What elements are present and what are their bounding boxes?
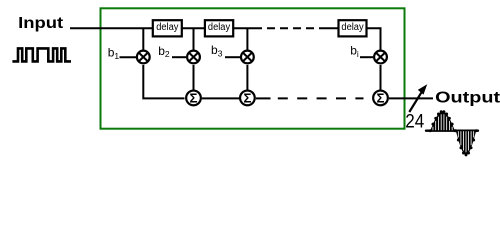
summer S3 — [373, 91, 388, 106]
delay D1 — [153, 20, 182, 36]
wire M2 down into summer S1 — [193, 65, 195, 90]
multiplier M2 — [187, 51, 200, 64]
summer S1 — [186, 91, 201, 106]
svg-text:24: 24 — [405, 111, 424, 132]
node Input label — [18, 13, 63, 32]
wire S3 to output — [389, 97, 433, 99]
filter block boundary box — [101, 8, 405, 128]
delay D2 — [205, 20, 233, 36]
summer S2 — [240, 91, 255, 106]
wire input line to delay D1 — [70, 27, 153, 29]
svg-text:Σ: Σ — [243, 91, 251, 106]
coefficient label bi — [350, 44, 359, 59]
multiplier M3 — [241, 51, 254, 64]
wire delay D1 to delay D2 — [182, 27, 205, 29]
coefficient label b1 — [108, 46, 120, 61]
node Output label — [435, 88, 500, 106]
svg-text:Input: Input — [18, 13, 63, 32]
coefficient label b2 — [158, 44, 170, 59]
svg-text:Σ: Σ — [190, 91, 198, 106]
wire b3 stub — [225, 56, 240, 58]
svg-text:delay: delay — [341, 21, 363, 33]
multiplier M4 — [374, 51, 387, 64]
wire S2 solid stub right — [256, 97, 271, 99]
wire bi stub — [360, 56, 373, 58]
wire tap1 vertical into multiplier M1 — [142, 28, 144, 50]
delay D3 — [339, 20, 367, 36]
bus width arrow slash — [409, 84, 427, 112]
bus width label 24 — [405, 111, 424, 132]
wire dashed S2 to S3 — [278, 97, 364, 99]
wire M3 down into summer S2 — [246, 65, 248, 90]
wire tap3 vertical into multiplier M3 — [246, 28, 248, 50]
wire b1 stub — [120, 56, 137, 58]
svg-text:Output: Output — [435, 88, 500, 106]
wire M1 down and across to summer S1 — [143, 65, 184, 98]
wire M4 down into summer S3 — [380, 65, 382, 90]
multiplier M1 — [137, 51, 150, 64]
input digital waveform icon — [12, 48, 71, 61]
wire S1 to S2 — [202, 97, 239, 99]
output sampled sine waveform icon — [426, 110, 478, 156]
svg-text:delay: delay — [208, 21, 230, 33]
wire tap2 vertical into multiplier M2 — [193, 28, 195, 50]
svg-text:Σ: Σ — [377, 91, 385, 106]
wire delay D3 to corner tap4 — [367, 28, 381, 50]
svg-text:delay: delay — [156, 21, 178, 33]
wire b2 stub — [172, 56, 186, 58]
coefficient label b3 — [211, 43, 223, 58]
wire dashed continuation to delay D3 — [267, 27, 339, 29]
wire delay D2 to node tap3 — [234, 27, 263, 29]
